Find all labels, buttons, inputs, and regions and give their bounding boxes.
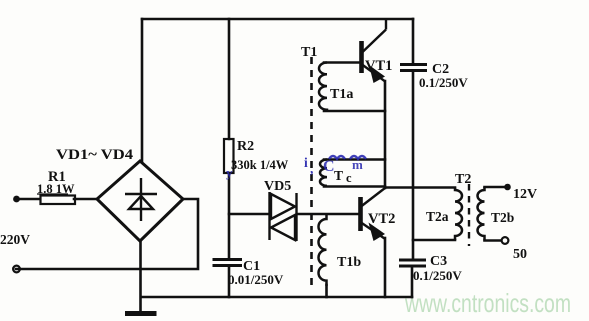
wire bottom rail: [141, 296, 412, 299]
wire top rail: [142, 18, 413, 21]
svg-text:VT1: VT1: [365, 58, 392, 74]
wire VT2 emitter to bottom rail: [384, 238, 387, 297]
ground: [128, 311, 155, 316]
wire Tc top to node M: [324, 158, 385, 161]
diode inside bridge: [125, 178, 157, 221]
node terminal 220V bottom (open): [13, 266, 20, 273]
resistor R1: [41, 196, 76, 205]
bridge rectifier VD1~VD4: [97, 161, 183, 241]
winding T1a: [319, 63, 327, 112]
wire node M to T2a top: [385, 186, 455, 189]
svg-text:0.01/250V: 0.01/250V: [228, 272, 284, 287]
svg-text:T1: T1: [301, 45, 317, 60]
svg-text:www.cntronics.com: www.cntronics.com: [404, 288, 571, 318]
capacitor C2: [400, 65, 427, 71]
svg-text:T1b: T1b: [337, 255, 361, 270]
wire T1b bottom to rail: [325, 285, 328, 297]
wire VD5 to VT2 base: [297, 213, 359, 216]
diac VD5: [270, 192, 297, 241]
wire R2 drop from rail: [228, 19, 231, 139]
wire R2 bottom to VD5 node and C1: [228, 173, 231, 259]
wire bridge bottom to ground: [139, 241, 142, 313]
node terminal 50 (open): [502, 237, 509, 244]
wire R1 right lead: [74, 198, 96, 201]
winding T1b: [319, 214, 327, 286]
svg-text:220V: 220V: [0, 232, 30, 247]
svg-text:T2a: T2a: [426, 209, 449, 224]
svg-text:T: T: [334, 168, 343, 183]
svg-text:330k 1/4W: 330k 1/4W: [231, 158, 289, 172]
winding Tc: [320, 160, 327, 186]
svg-text:12V: 12V: [513, 187, 537, 202]
resistor R2: [224, 139, 234, 173]
svg-text:VT2: VT2: [368, 211, 395, 227]
svg-text:C: C: [323, 158, 335, 175]
transformer T1 core (dashed): [310, 57, 313, 287]
transformer T2 core (dashed): [468, 184, 470, 246]
wire R1 left lead: [17, 198, 40, 201]
winding T2a: [455, 188, 462, 241]
svg-text:VD5: VD5: [264, 179, 291, 194]
wire left vertical to bridge top: [141, 19, 144, 162]
wire T1a bottom to node M: [324, 110, 385, 113]
wire T2b bottom to 50 terminal: [485, 239, 502, 242]
capacitor C3: [399, 260, 426, 266]
wire T2a bottom to C3 node: [413, 239, 455, 242]
transistor VT1: [362, 19, 387, 81]
capacitor C1: [213, 260, 243, 266]
svg-text:i: i: [304, 155, 308, 170]
svg-text:0.1/250V: 0.1/250V: [413, 268, 462, 283]
svg-text:T2b: T2b: [491, 210, 514, 225]
wire T2b top to 12V terminal: [485, 186, 505, 189]
wire right vertical C2/C3 branch: [412, 19, 415, 64]
watermark blue fragments: [226, 155, 366, 180]
transistor VT2: [361, 188, 386, 239]
node terminal 12V (dot): [504, 184, 511, 191]
wire AC lower: terminal to bridge right vertex: [16, 199, 198, 269]
wire Tc bottom to node M: [324, 185, 385, 188]
svg-text:c: c: [346, 171, 352, 185]
svg-text:y: y: [226, 165, 233, 180]
svg-text:C3: C3: [430, 254, 447, 269]
svg-text:VD1~ VD4: VD1~ VD4: [56, 147, 133, 163]
node terminal 220V top (dot): [13, 196, 20, 203]
svg-text:,: ,: [310, 161, 313, 176]
svg-text:T2: T2: [455, 172, 471, 187]
wire VD5 node horizontal: [229, 213, 269, 216]
svg-text:0.1/250V: 0.1/250V: [419, 75, 468, 90]
svg-text:50: 50: [513, 247, 527, 262]
winding T2b: [478, 187, 485, 241]
wire C1 bottom to rail: [228, 266, 231, 297]
svg-text:R2: R2: [237, 139, 254, 154]
node M vertical VT1 emitter to VT2 collector: [384, 81, 387, 188]
underline R1 value: [37, 193, 68, 195]
wire T1a top to VT1 base: [324, 61, 359, 64]
svg-text:T1a: T1a: [330, 87, 353, 102]
